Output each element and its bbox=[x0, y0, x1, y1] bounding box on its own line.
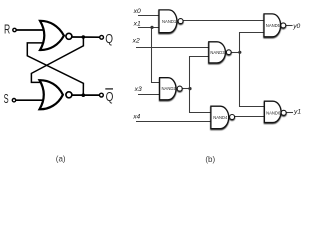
svg-text:y0: y0 bbox=[292, 23, 300, 30]
wire R to NOR1 bbox=[17, 29, 44, 31]
svg-text:Q: Q bbox=[106, 89, 114, 104]
gate NAND5 bbox=[264, 14, 281, 37]
svg-text:x4: x4 bbox=[132, 113, 140, 120]
terminal S bbox=[12, 99, 15, 102]
bubble NAND6 bbox=[281, 110, 286, 115]
svg-text:x3: x3 bbox=[134, 86, 142, 93]
wire U1 output to Q bbox=[72, 36, 100, 38]
wire x1 branch to NAND2 bbox=[152, 28, 160, 83]
svg-text:(b): (b) bbox=[205, 155, 215, 164]
gate NAND1 bbox=[159, 10, 177, 33]
wire NAND4 out to NAND6 bbox=[235, 116, 265, 118]
wire x1 bbox=[138, 27, 159, 29]
wire feedback Qbar to NOR1 input bbox=[27, 43, 83, 95]
wire S to NOR2 bbox=[16, 99, 44, 101]
wire feedback Q to NOR2 input bbox=[31, 37, 83, 82]
wire x3 bbox=[138, 94, 160, 96]
wire x0 bbox=[138, 15, 159, 17]
terminal Q bbox=[100, 35, 104, 39]
wire NAND3 out bbox=[231, 52, 240, 54]
node x1 junction bbox=[150, 26, 153, 29]
wire NAND6 out to y1 bbox=[286, 112, 293, 114]
bubble NAND1 bbox=[178, 19, 183, 24]
bubble U1 bbox=[66, 33, 72, 39]
gate NAND4 bbox=[211, 106, 229, 128]
wire NAND3 branch down to NAND6 bbox=[240, 53, 265, 107]
wire NAND1 out to NAND5 bbox=[183, 20, 264, 22]
svg-text:x0: x0 bbox=[133, 8, 141, 15]
svg-text:NAND3: NAND3 bbox=[210, 50, 225, 55]
svg-text:R: R bbox=[4, 22, 10, 37]
bubble NAND4 bbox=[230, 115, 235, 120]
svg-text:(a): (a) bbox=[56, 155, 66, 164]
node NAND2 out junction bbox=[188, 87, 191, 90]
wire NAND3 branch up to NAND5 bbox=[240, 33, 265, 53]
svg-text:x2: x2 bbox=[132, 38, 140, 45]
wire NAND2 branch down to NAND4 bbox=[190, 89, 211, 113]
node Q junction bbox=[82, 35, 86, 39]
bubble U2 bbox=[66, 92, 72, 98]
NOR gate U2 (bottom) bbox=[40, 80, 63, 109]
svg-text:y1: y1 bbox=[293, 108, 301, 115]
bubble NAND5 bbox=[281, 23, 286, 28]
svg-text:NAND4: NAND4 bbox=[213, 115, 228, 120]
wire x2 bbox=[136, 47, 209, 49]
svg-text:Q: Q bbox=[105, 31, 113, 46]
wire U2 output to Qbar bbox=[72, 94, 99, 96]
wire NAND2 out bbox=[182, 88, 190, 90]
gate NAND6 bbox=[264, 101, 281, 122]
svg-text:NAND1: NAND1 bbox=[162, 19, 177, 24]
node Qbar junction bbox=[82, 93, 86, 97]
terminal R bbox=[13, 28, 16, 31]
node NAND3 out junction bbox=[238, 51, 241, 54]
svg-text:NAND6: NAND6 bbox=[266, 110, 281, 115]
terminal Qbar bbox=[100, 93, 104, 97]
svg-text:NAND5: NAND5 bbox=[266, 23, 281, 28]
wire NAND5 out to y0 bbox=[286, 25, 293, 27]
svg-text:NAND2: NAND2 bbox=[162, 86, 177, 91]
gate NAND2 bbox=[160, 78, 176, 100]
gate NAND3 bbox=[209, 42, 226, 63]
bubble NAND2 bbox=[177, 86, 182, 91]
svg-text:x1: x1 bbox=[133, 21, 141, 28]
NOR gate U1 (top) bbox=[40, 21, 64, 50]
svg-text:S: S bbox=[4, 91, 9, 106]
bubble NAND3 bbox=[226, 50, 231, 55]
wire x4 bbox=[136, 121, 211, 123]
wire NAND2 branch up to NAND3 bbox=[190, 57, 209, 89]
